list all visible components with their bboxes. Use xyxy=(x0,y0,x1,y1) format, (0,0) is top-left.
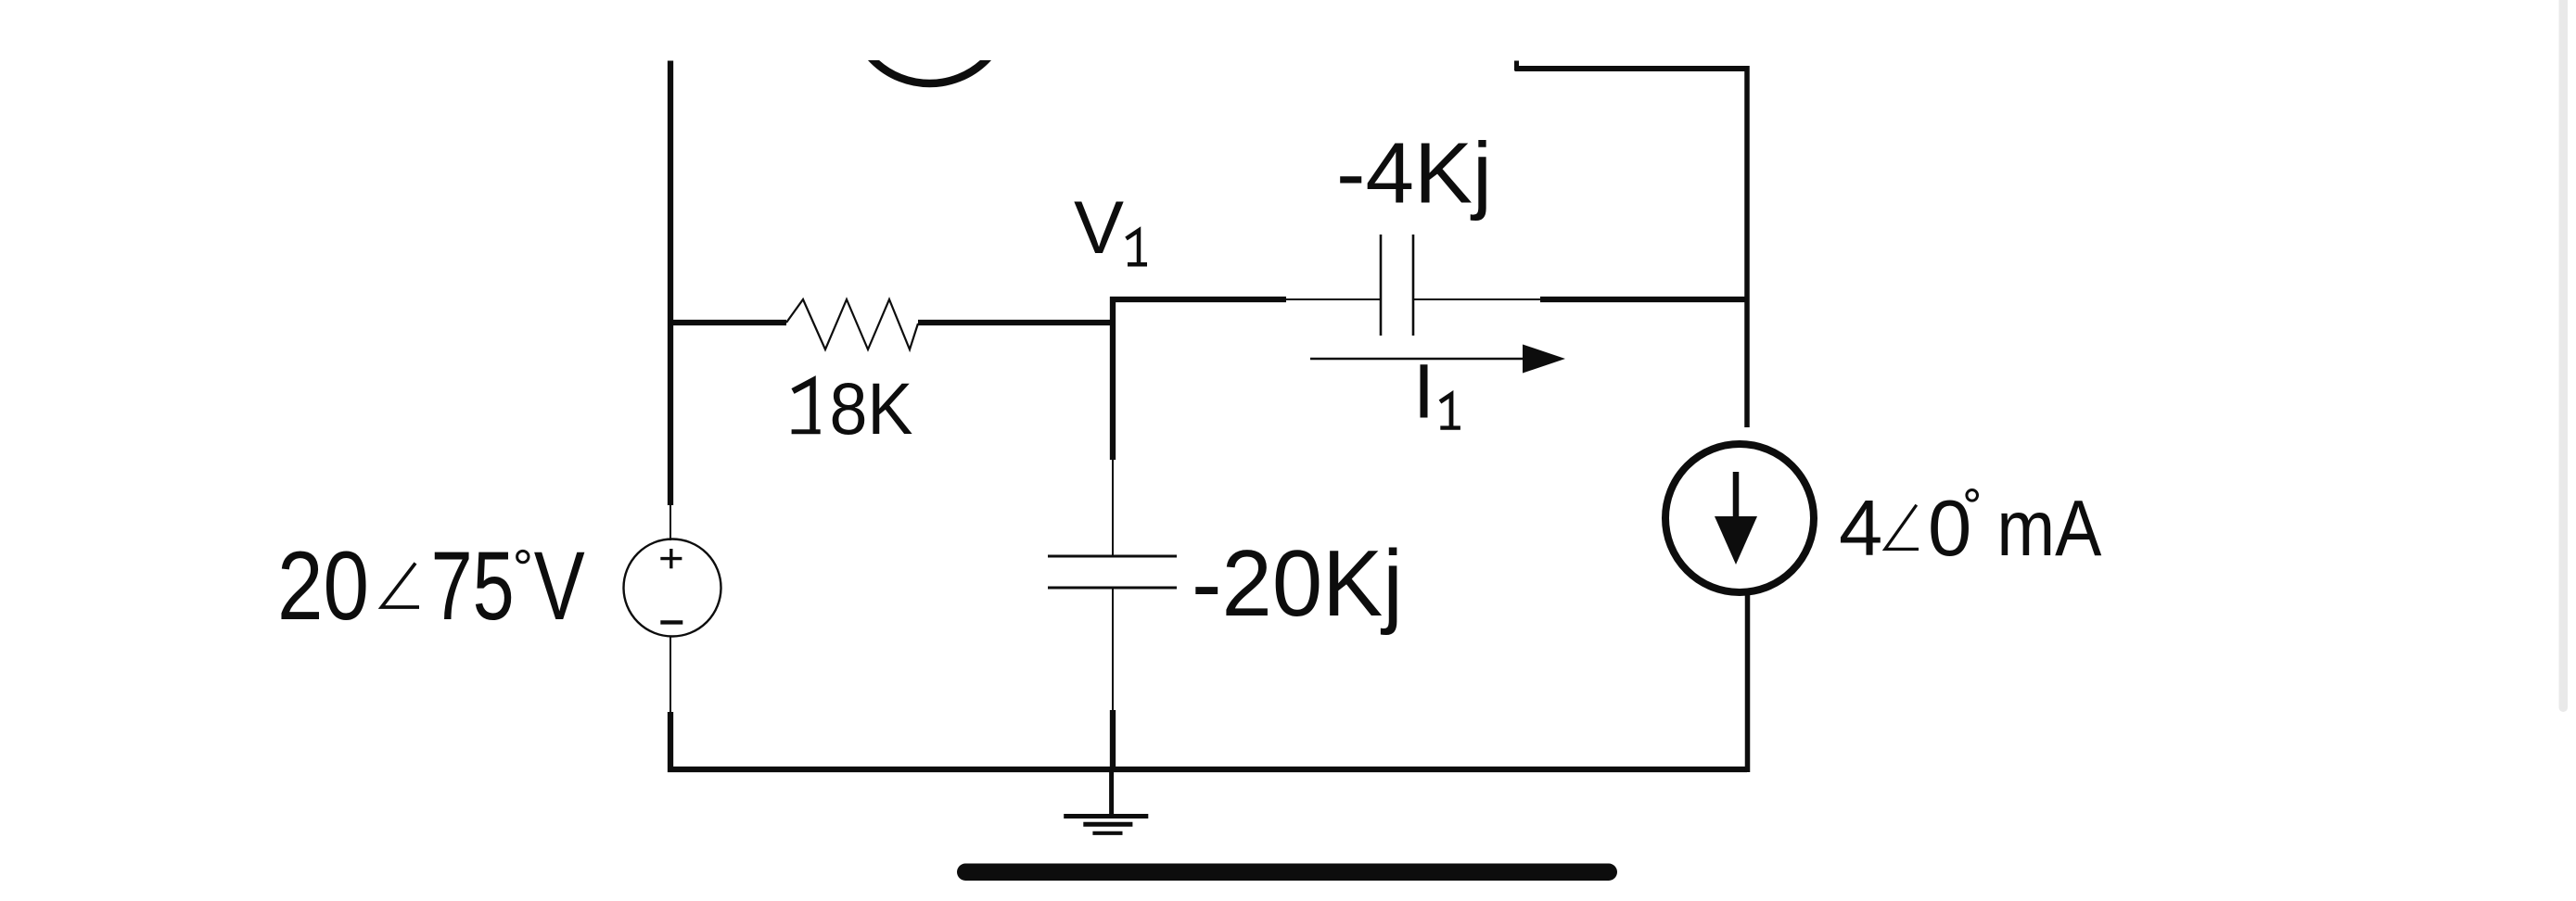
svg-text:-4Kj: -4Kj xyxy=(1336,124,1492,221)
svg-text:75: 75 xyxy=(431,532,515,641)
svg-text:0: 0 xyxy=(1928,485,1971,573)
svg-text:4: 4 xyxy=(1839,485,1882,573)
svg-text:-20Kj: -20Kj xyxy=(1192,532,1403,636)
svg-text:V: V xyxy=(1074,186,1124,270)
svg-text:20: 20 xyxy=(277,532,369,641)
svg-text:8K: 8K xyxy=(830,367,913,450)
svg-text:V: V xyxy=(534,532,585,641)
svg-text:mA: mA xyxy=(1996,485,2101,573)
